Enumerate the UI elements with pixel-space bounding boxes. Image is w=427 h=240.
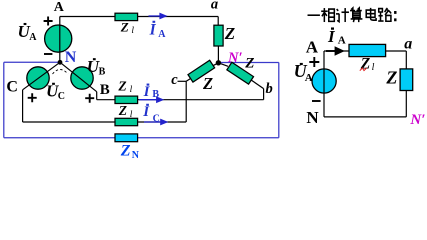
svg-text:l: l — [130, 110, 133, 120]
svg-text:a: a — [404, 35, 412, 52]
svg-text:I: I — [142, 104, 150, 120]
svg-text:Z: Z — [224, 24, 235, 43]
svg-text:I: I — [143, 84, 151, 100]
svg-text:Z: Z — [118, 103, 127, 118]
svg-text:A: A — [54, 0, 65, 15]
svg-text:N: N — [65, 49, 77, 66]
svg-text:I: I — [149, 21, 157, 38]
svg-text:l: l — [131, 26, 134, 36]
svg-text:a: a — [211, 0, 218, 13]
svg-text:N: N — [132, 150, 140, 161]
svg-text:A: A — [158, 29, 166, 40]
svg-text:Z: Z — [120, 143, 131, 160]
svg-text:B: B — [152, 89, 159, 100]
svg-text:l: l — [372, 62, 375, 73]
svg-text:b: b — [266, 81, 273, 97]
svg-text:A: A — [338, 35, 346, 47]
svg-text:N: N — [306, 108, 319, 127]
svg-text:B: B — [100, 82, 110, 98]
svg-text:Z: Z — [202, 74, 213, 93]
svg-text:l: l — [130, 85, 133, 95]
svg-text:Z: Z — [120, 19, 129, 34]
svg-text:C: C — [6, 79, 18, 96]
svg-text:c: c — [171, 72, 178, 88]
svg-text:N′: N′ — [409, 112, 425, 128]
svg-text:A: A — [305, 72, 313, 84]
svg-text:C: C — [58, 91, 65, 102]
svg-text:A: A — [29, 32, 37, 43]
svg-text:B: B — [99, 67, 106, 78]
svg-text:N′: N′ — [227, 50, 243, 66]
svg-text:Z: Z — [244, 56, 254, 72]
svg-text:A: A — [306, 38, 319, 57]
svg-text:Z: Z — [385, 68, 397, 88]
svg-text:Z: Z — [117, 78, 126, 93]
svg-text:C: C — [153, 114, 160, 125]
